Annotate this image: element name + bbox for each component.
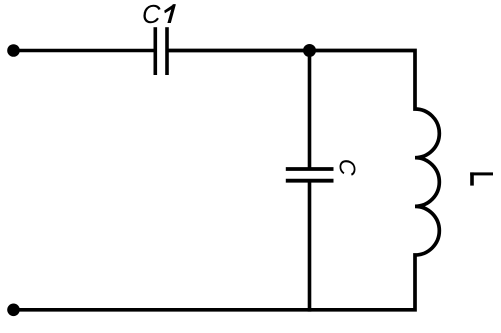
svg-text:C: C <box>335 159 361 176</box>
svg-text:C: C <box>142 1 161 29</box>
